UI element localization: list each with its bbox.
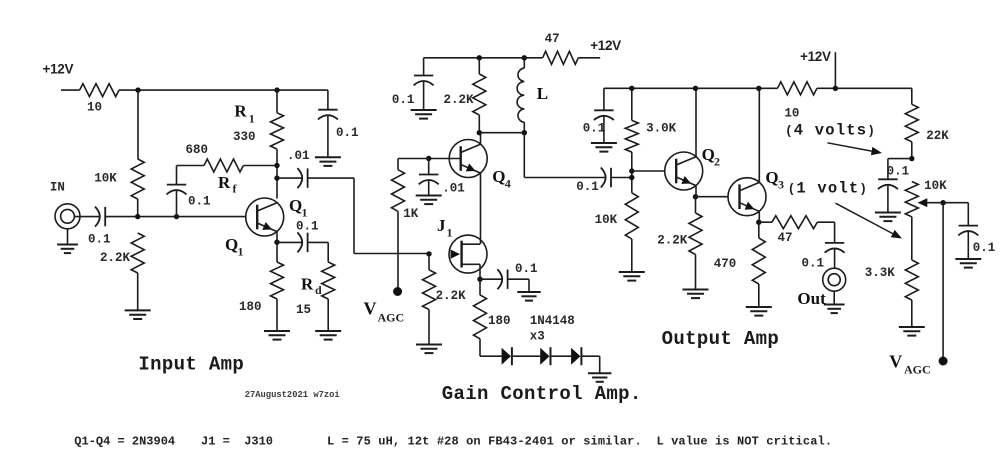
resistor 2.2K (Q4 collector) [473, 74, 486, 115]
resistor 10K (bias upper) [131, 159, 144, 199]
ground [315, 157, 341, 166]
svg-text:+12V: +12V [43, 62, 74, 77]
jfet J1 [449, 235, 487, 273]
resistor 3.0K (Q2 bias upper) [625, 120, 638, 152]
wire [137, 199, 139, 217]
capacitor 0.1 (emitter bypass) [297, 232, 307, 252]
svg-text:Output Amp: Output Amp [662, 328, 780, 350]
wire [911, 142, 913, 159]
wire [833, 291, 835, 304]
capacitor 0.1 (mid rail bypass) [414, 76, 434, 86]
wire [887, 159, 889, 180]
wire [943, 202, 968, 204]
wire [817, 87, 912, 89]
node [522, 55, 527, 60]
resistor Rd 15 (emitter degeneration) [322, 262, 335, 299]
capacitor 0.1 (wiper bypass) [958, 226, 978, 236]
resistor 3.3K (divider bottom) [905, 260, 918, 300]
capacitor 0.1 (out rail bypass) [594, 110, 614, 120]
svg-text:0.1: 0.1 [576, 180, 599, 194]
wire [480, 355, 502, 357]
capacitor 0.1 (input rail bypass) [318, 110, 338, 120]
svg-text:L: L [537, 84, 548, 103]
wire [528, 279, 530, 292]
wire [428, 159, 430, 175]
svg-text:0.1: 0.1 [515, 262, 538, 276]
wire [429, 158, 461, 160]
wire [327, 242, 329, 262]
annotation arrow (1 volt) [836, 203, 903, 238]
label Q1 (lower) [225, 235, 238, 254]
node [274, 87, 279, 92]
label 1N4148 [530, 314, 575, 328]
label J1 [437, 216, 446, 235]
wire (VAGC feed) [942, 203, 944, 361]
svg-text:180: 180 [239, 300, 262, 314]
transistor Q2 [665, 152, 703, 190]
wire [523, 133, 525, 178]
svg-text:Input Amp: Input Amp [138, 354, 244, 376]
wire [888, 158, 912, 160]
wire [603, 88, 605, 110]
label 0.1 [887, 165, 910, 179]
svg-text:Q: Q [225, 235, 238, 254]
ground [315, 331, 341, 340]
svg-text:IN: IN [50, 181, 65, 195]
connector IN [55, 204, 80, 229]
wire [581, 355, 599, 357]
label 47 [778, 231, 793, 245]
wire [695, 255, 697, 290]
svg-text:0.1: 0.1 [336, 126, 359, 140]
svg-text:0.1: 0.1 [583, 122, 606, 136]
svg-text:2.2K: 2.2K [100, 251, 131, 265]
label 0.1 [576, 180, 599, 194]
power +12V label (out) [800, 49, 831, 64]
node [274, 240, 279, 245]
svg-text:Q1-Q4 = 2N3904: Q1-Q4 = 2N3904 [74, 435, 175, 449]
label Q1 (upper) [289, 196, 302, 215]
wire [631, 239, 633, 272]
svg-text:1: 1 [447, 226, 453, 240]
label Q4 subscript [505, 177, 511, 191]
wire [834, 222, 836, 243]
wire [478, 58, 480, 74]
annotation arrow (4 volts) [827, 143, 882, 155]
label VAGC [889, 352, 902, 372]
resistor 2.2K (bias lower) [131, 233, 144, 273]
wire [428, 254, 430, 270]
ground [416, 345, 442, 354]
ground (Out jack) [824, 305, 845, 314]
diode D1 1N4148 [502, 347, 512, 365]
label R1 [234, 102, 247, 121]
label 47 [545, 32, 560, 46]
wire [67, 229, 69, 245]
node [629, 168, 634, 173]
node [274, 163, 279, 168]
svg-text:2.2K: 2.2K [444, 93, 475, 107]
svg-text:10K: 10K [924, 179, 947, 193]
ground (IN jack) [57, 245, 78, 254]
label Rd subscript [315, 283, 322, 297]
node [426, 156, 431, 161]
label 0.1 [515, 262, 538, 276]
svg-text:AGC: AGC [378, 311, 405, 325]
ground [875, 213, 901, 222]
resistor 470 (Q3 emitter) [752, 238, 765, 284]
wire [423, 58, 425, 76]
wire [604, 87, 778, 89]
wire [551, 355, 572, 357]
wire [327, 299, 329, 331]
ground [517, 292, 540, 301]
wire [631, 88, 633, 120]
svg-text:V: V [889, 352, 902, 372]
svg-text:22K: 22K [926, 129, 949, 143]
capacitor 0.1 (feedback dc block) [167, 185, 187, 195]
terminal VAGC (right) [939, 357, 948, 366]
capacitor 0.1 (output coupling) [825, 243, 845, 253]
node [135, 214, 140, 219]
svg-text:(4 volts): (4 volts) [785, 122, 876, 140]
node [940, 200, 945, 205]
label 180 [488, 314, 511, 328]
label 2.2K [100, 251, 131, 265]
svg-text:27August2021 w7zoi: 27August2021 w7zoi [245, 390, 340, 400]
diode D3 1N4148 [571, 347, 581, 365]
wire [695, 88, 697, 156]
label L [537, 84, 548, 103]
label 22K [926, 129, 949, 143]
svg-text:3.3K: 3.3K [865, 266, 896, 280]
wire [758, 284, 760, 307]
label Rd [301, 275, 314, 294]
svg-text:Q: Q [765, 168, 778, 187]
label Q1 subscript [302, 206, 308, 220]
svg-text:0.1: 0.1 [802, 257, 825, 271]
svg-text:R: R [218, 173, 231, 192]
svg-text:330: 330 [233, 130, 256, 144]
power +12V label (mid) [590, 38, 621, 53]
node [756, 220, 761, 225]
diode D2 1N4148 [540, 347, 550, 365]
node [135, 87, 140, 92]
resistor R1 330 (collector load) [271, 113, 284, 149]
label 2.2K [444, 93, 475, 107]
resistor 10 (input decoupling) [80, 84, 119, 97]
wire [137, 273, 139, 310]
node [756, 86, 761, 91]
label 680 [186, 143, 209, 157]
wire [967, 231, 969, 259]
wire [696, 196, 729, 198]
label Q3 [765, 168, 778, 187]
svg-text:1: 1 [302, 206, 308, 220]
label .01 [287, 149, 310, 163]
ground [588, 373, 611, 382]
label Rf [218, 173, 231, 192]
node [693, 194, 698, 199]
svg-text:Gain Control Amp.: Gain Control Amp. [442, 383, 642, 405]
svg-text:0.1: 0.1 [296, 220, 319, 234]
wire [176, 166, 178, 185]
wire [74, 216, 100, 218]
label x3 [530, 330, 545, 344]
ground [619, 272, 645, 281]
svg-text:4: 4 [505, 177, 511, 191]
svg-text:x3: x3 [530, 330, 545, 344]
wire [758, 211, 760, 222]
wire [817, 221, 834, 223]
svg-text:1: 1 [238, 245, 244, 259]
node [693, 86, 698, 91]
label 0.1 [188, 195, 211, 209]
note inductor [327, 435, 832, 449]
svg-text:15: 15 [296, 303, 311, 317]
wire [276, 149, 278, 198]
wire [887, 185, 889, 213]
svg-text:J1 = J310: J1 = J310 [201, 435, 273, 449]
wire [353, 178, 355, 253]
wire [277, 241, 303, 243]
label VAGC subscript [378, 311, 405, 325]
label J1 subscript [447, 226, 453, 240]
capacitor 0.1 (interstage to Q2) [601, 168, 611, 188]
label 10K [924, 179, 947, 193]
wire [480, 133, 482, 145]
terminal VAGC (mid) [393, 287, 402, 296]
label Out [797, 289, 826, 308]
svg-text:AGC: AGC [904, 363, 931, 377]
annotation (4 volts) [785, 122, 876, 140]
svg-text:1: 1 [249, 112, 255, 126]
wire [508, 278, 529, 280]
label 470 [714, 257, 737, 271]
wire [911, 300, 913, 327]
svg-text:+12V: +12V [590, 38, 621, 53]
wire [428, 180, 430, 195]
pot wiper arrow [918, 198, 944, 207]
label 0.1 [336, 126, 359, 140]
wire [105, 216, 245, 218]
capacitor 0.1 (4V node bypass) [878, 179, 898, 189]
wire (+12V drop) [834, 52, 836, 88]
svg-text:0.1: 0.1 [188, 195, 211, 209]
wire [119, 89, 277, 91]
wire [603, 116, 605, 143]
wire [524, 177, 606, 179]
resistor 10K (Q2 bias lower) [625, 193, 638, 239]
wire [479, 264, 481, 279]
section label Gain Control Amp. [442, 383, 642, 405]
resistor 180 (J1 source) [474, 295, 487, 339]
label 10K [94, 172, 117, 186]
svg-text:2.2K: 2.2K [436, 289, 467, 303]
node [477, 277, 482, 282]
label 2.2K [436, 289, 467, 303]
svg-text:Q: Q [289, 196, 302, 215]
svg-text:0.1: 0.1 [392, 93, 415, 107]
node [629, 175, 634, 180]
transistor Q1 [246, 198, 284, 236]
wire [243, 165, 277, 167]
ground [955, 259, 981, 268]
wire [479, 132, 524, 134]
wire [758, 88, 760, 182]
wire [176, 191, 178, 217]
wire [523, 58, 525, 68]
resistor 2.2K (Q2 emitter) [689, 213, 702, 255]
node [909, 156, 914, 161]
label Q4 [492, 167, 505, 186]
wire [611, 177, 632, 179]
capacitor 0.1 (input coupling) [95, 207, 105, 227]
wire [277, 177, 303, 179]
wire [479, 279, 481, 295]
ground [416, 196, 442, 205]
label Q2 [702, 145, 715, 164]
node [629, 86, 634, 91]
node [174, 214, 179, 219]
resistor 1K (Q4 base) [392, 170, 405, 212]
wire [632, 170, 665, 172]
svg-text:R: R [234, 102, 247, 121]
label 0.1 [973, 241, 996, 255]
node [833, 86, 838, 91]
node [426, 251, 431, 256]
wire [354, 253, 429, 255]
power +12V label (input amp) [43, 62, 74, 77]
wire [423, 81, 425, 110]
svg-text:680: 680 [186, 143, 209, 157]
wire [327, 116, 329, 158]
svg-text:10K: 10K [595, 213, 618, 227]
capacitor 0.1 (J1 source bypass) [497, 269, 507, 289]
label 0.1 [583, 122, 606, 136]
svg-text:+12V: +12V [800, 49, 831, 64]
section label Input Amp [138, 354, 244, 376]
label Q1 subscript [238, 245, 244, 259]
resistor 22K (divider top) [905, 104, 918, 142]
ground [683, 290, 709, 299]
svg-text:10K: 10K [94, 172, 117, 186]
connector Out [823, 268, 846, 291]
inductor L [517, 68, 524, 122]
wire [524, 57, 542, 59]
svg-text:0.1: 0.1 [88, 233, 111, 247]
wire [397, 211, 399, 291]
ground [125, 310, 151, 319]
resistor 10K (divider pot) [905, 182, 918, 217]
svg-text:3.0K: 3.0K [646, 122, 677, 136]
wire [480, 278, 503, 280]
wire [276, 242, 278, 262]
section label Output Amp [662, 328, 780, 350]
label 0.1 [802, 257, 825, 271]
label 0.1 [392, 93, 415, 107]
label VAGC [364, 299, 377, 319]
ground [264, 331, 290, 340]
label R1 subscript [249, 112, 255, 126]
label Q2 subscript [714, 155, 720, 169]
wire [308, 177, 354, 179]
wire [276, 90, 278, 113]
wire [424, 57, 525, 59]
wire [276, 232, 278, 243]
wire [967, 203, 969, 226]
wire [398, 158, 429, 160]
label 330 [233, 130, 256, 144]
wire [599, 356, 601, 373]
label 10K [595, 213, 618, 227]
wire [512, 355, 540, 357]
wire [478, 115, 480, 133]
resistor 47 (mid rail feed) [543, 51, 579, 64]
label 2.2K [657, 234, 688, 248]
ground [591, 143, 617, 152]
wire [834, 249, 836, 269]
wire [61, 89, 80, 91]
svg-text:.01: .01 [442, 182, 465, 196]
wire [177, 165, 205, 167]
ground [411, 110, 437, 119]
label 3.3K [865, 266, 896, 280]
wire [479, 339, 481, 356]
resistor Rf 680 (feedback) [204, 159, 243, 172]
wire [911, 88, 913, 104]
wire [397, 159, 399, 170]
ground [899, 327, 925, 336]
wire [758, 222, 760, 238]
wire [137, 90, 139, 159]
svg-text:Out: Out [797, 289, 826, 308]
label 10 [784, 106, 799, 120]
label .01 [442, 182, 465, 196]
note 27August2021 w7zoi [245, 390, 340, 400]
wire [695, 197, 697, 213]
wire [695, 186, 697, 197]
wire [480, 173, 482, 244]
label IN [50, 181, 65, 195]
wire [327, 90, 329, 110]
svg-text:.01: .01 [287, 149, 310, 163]
resistor 10 (out rail feed) [778, 82, 817, 95]
wire [911, 217, 913, 260]
svg-text:2: 2 [714, 155, 720, 169]
svg-text:2.2K: 2.2K [657, 234, 688, 248]
svg-text:470: 470 [714, 257, 737, 271]
resistor 2.2K (J1 gate) [423, 270, 436, 310]
wire [428, 310, 430, 345]
svg-text:Q: Q [492, 167, 505, 186]
svg-text:V: V [364, 299, 377, 319]
svg-text:Q: Q [702, 145, 715, 164]
svg-text:d: d [315, 283, 322, 297]
svg-text:3: 3 [778, 178, 784, 192]
svg-text:0.1: 0.1 [973, 241, 996, 255]
annotation (1 volt) [788, 180, 868, 198]
label 1K [403, 207, 419, 221]
label 15 [296, 303, 311, 317]
capacitor .01 (interstage coupling) [297, 168, 307, 188]
svg-text:1K: 1K [403, 207, 419, 221]
svg-text:(1 volt): (1 volt) [788, 180, 868, 198]
wire [276, 299, 278, 331]
note transistors [74, 435, 175, 449]
wire [759, 221, 772, 223]
wire [631, 152, 633, 193]
